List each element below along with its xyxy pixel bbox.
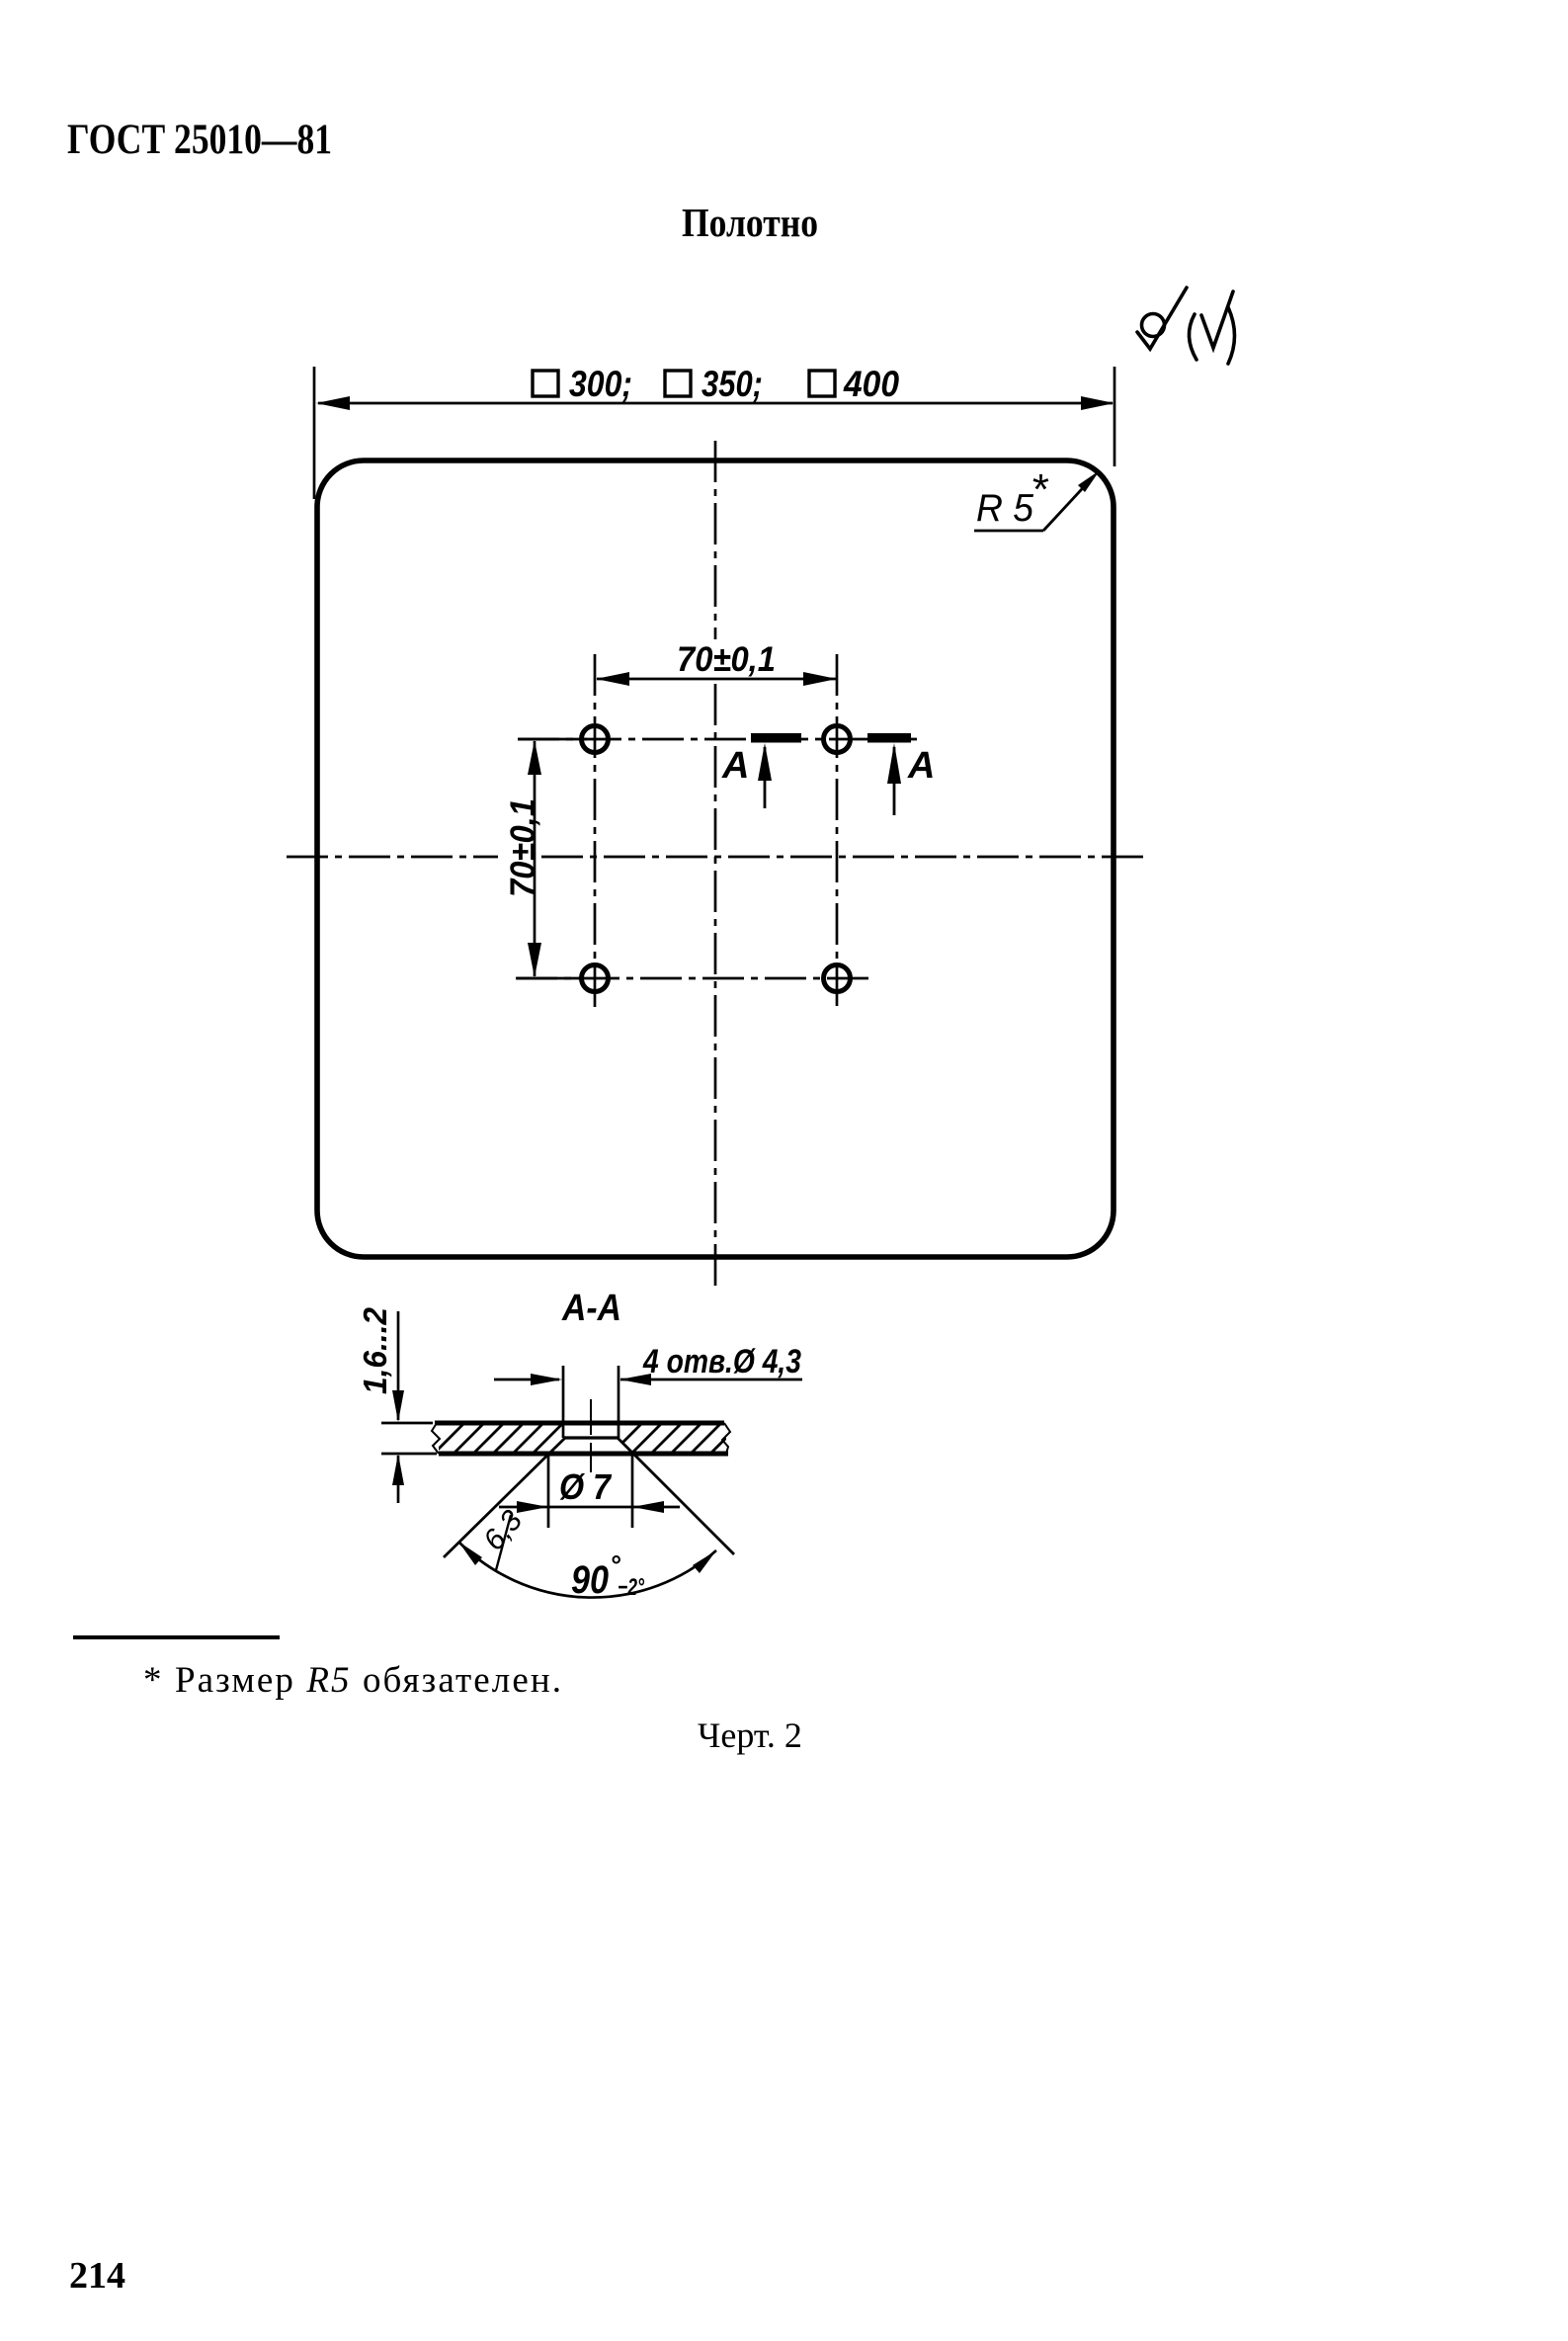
svg-text:*: * (1031, 465, 1049, 514)
svg-text:A: A (721, 745, 749, 787)
svg-text:R 5: R 5 (976, 487, 1033, 530)
svg-text:4 отв.Ø 4,3: 4 отв.Ø 4,3 (642, 1343, 801, 1380)
svg-text:70±0,1: 70±0,1 (677, 640, 776, 679)
svg-text:350;: 350; (701, 364, 763, 404)
svg-text:A: A (907, 745, 935, 787)
svg-text:70±0,1: 70±0,1 (504, 798, 542, 897)
svg-text:400: 400 (843, 364, 899, 404)
svg-text:Ø 7: Ø 7 (559, 1466, 613, 1507)
svg-text:90: 90 (571, 1558, 609, 1602)
svg-text:300;: 300; (569, 364, 632, 404)
svg-text:Полотно: Полотно (682, 200, 818, 245)
svg-text:* Размер R5 обязателен.: * Размер R5 обязателен. (143, 1660, 561, 1701)
svg-text:A-A: A-A (561, 1288, 621, 1329)
svg-text:ГОСТ 25010—81: ГОСТ 25010—81 (67, 117, 332, 163)
svg-text:214: 214 (69, 2255, 125, 2297)
svg-text:1,6...2: 1,6...2 (357, 1306, 393, 1394)
svg-text:−2°: −2° (618, 1574, 644, 1601)
svg-text:Черт. 2: Черт. 2 (698, 1715, 802, 1755)
